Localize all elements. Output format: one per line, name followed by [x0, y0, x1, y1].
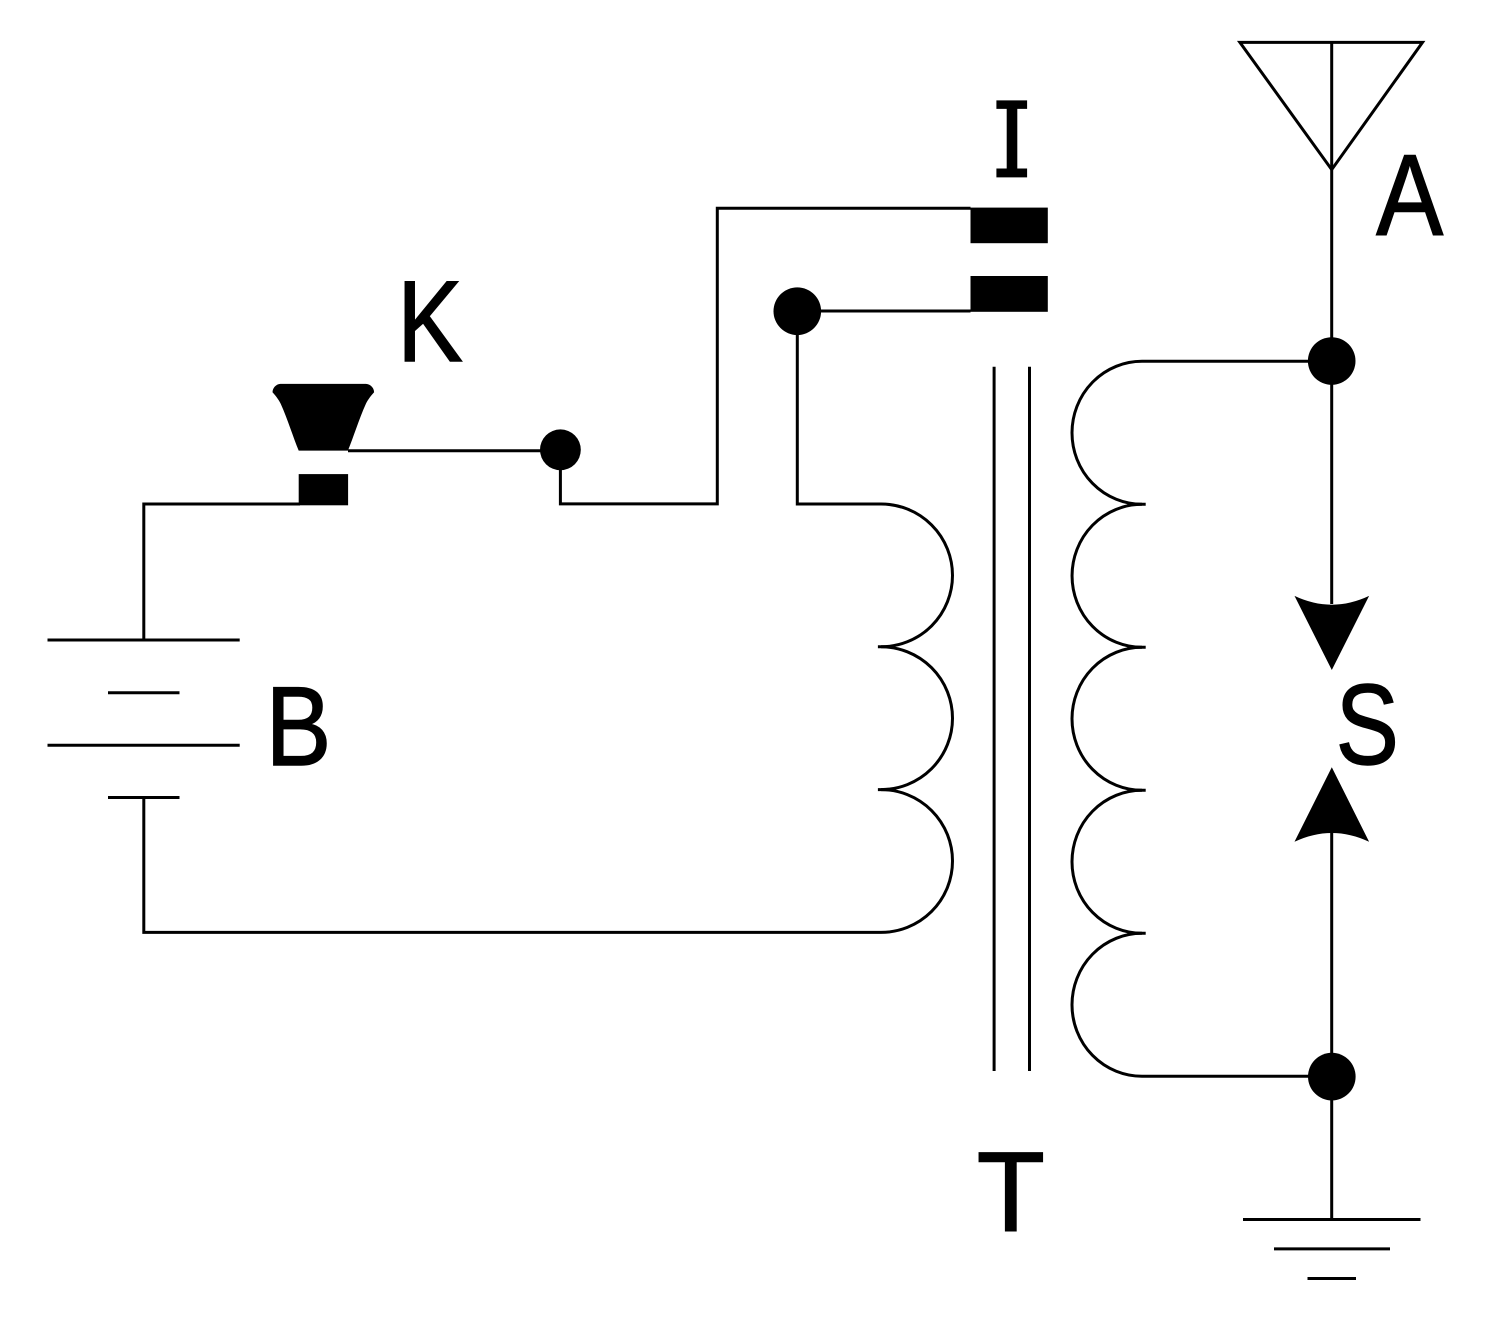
- svg-text:K: K: [397, 257, 463, 386]
- antenna A triangle: [1240, 42, 1423, 169]
- svg-text:A: A: [1376, 130, 1443, 259]
- secondary coil cusp spikes: [1133, 504, 1146, 933]
- wire key pivot to upper interrupter contact: [560, 208, 970, 504]
- wire key knob to pivot dot: [348, 449, 560, 452]
- battery B plate short bottom: [108, 796, 180, 799]
- label T: [977, 1128, 1045, 1255]
- battery B plate long top: [48, 639, 240, 642]
- wire battery bottom / primary return: [144, 798, 881, 933]
- label I: [996, 100, 1027, 177]
- wire secondary top to antenna node: [1142, 360, 1332, 363]
- label K: [397, 257, 463, 386]
- spark gap S lower electrode (up arrow): [1295, 767, 1370, 842]
- ground bar 2: [1274, 1247, 1390, 1250]
- ground bar 3: [1308, 1277, 1357, 1280]
- battery B plate short upper: [108, 691, 180, 694]
- wire interrupter node down to primary top: [797, 311, 881, 504]
- wire lower interrupter contact to node: [797, 310, 970, 313]
- interrupter I upper contact: [971, 208, 1048, 244]
- antenna feed wire: [1330, 42, 1333, 604]
- wire battery plus up to key anvil: [144, 504, 300, 640]
- transformer T primary coil: [881, 504, 953, 932]
- label A: [1376, 130, 1443, 259]
- label B: [266, 664, 332, 790]
- primary coil cusp spikes: [878, 647, 890, 790]
- key pivot contact dot: [540, 429, 581, 470]
- ground bar 1: [1243, 1218, 1421, 1221]
- key K knob: [273, 384, 375, 451]
- key anvil contact: [299, 474, 348, 505]
- node at interrupter lower contact: [774, 287, 822, 335]
- svg-text:B: B: [266, 664, 332, 790]
- transformer core line right: [1028, 367, 1031, 1071]
- spark gap S upper electrode (down arrow): [1295, 596, 1370, 670]
- transformer T secondary coil: [1072, 361, 1142, 1076]
- node at antenna / secondary top: [1308, 337, 1356, 385]
- svg-text:T: T: [977, 1128, 1045, 1255]
- battery B plate long lower: [48, 744, 240, 747]
- interrupter I lower contact: [971, 276, 1048, 312]
- wire spark gap to ground node: [1330, 833, 1333, 1220]
- label S: [1336, 662, 1399, 789]
- wire secondary bottom to ground node: [1142, 1075, 1332, 1078]
- svg-text:S: S: [1336, 662, 1399, 789]
- transformer core line left: [993, 367, 996, 1071]
- node at ground / secondary bottom: [1308, 1053, 1356, 1101]
